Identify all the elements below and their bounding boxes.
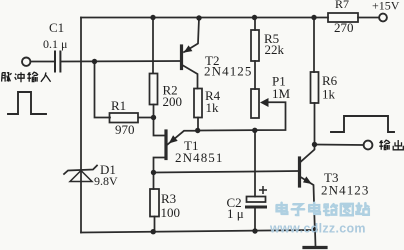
wire bottom rail bbox=[81, 230, 315, 233]
junction T1 emitter-R4 node bbox=[195, 128, 200, 133]
junction ground rail-T3 emitter bbox=[312, 227, 317, 232]
wire C1 to T2 base bbox=[61, 60, 181, 63]
svg-text:1M: 1M bbox=[272, 86, 291, 101]
svg-text:1k: 1k bbox=[206, 100, 220, 115]
zener diode D1 anode triangle bbox=[70, 171, 92, 182]
label output (Chinese glyph strokes) bbox=[379, 140, 403, 150]
transistor T2 collector bbox=[183, 66, 198, 89]
wire R3 top bbox=[153, 173, 155, 190]
potentiometer P1 wiper arrowhead bbox=[260, 98, 269, 107]
svg-text:100: 100 bbox=[161, 205, 181, 220]
svg-text:R1: R1 bbox=[111, 98, 126, 113]
junction R1-R2-T1 B2 node bbox=[151, 115, 156, 120]
transistor T3 emitter bbox=[301, 177, 315, 230]
transistor T1 emitter arrowhead bbox=[169, 135, 178, 143]
wire R7 to +15V terminal bbox=[358, 17, 379, 19]
wire R1 to node bbox=[139, 117, 154, 119]
capacitor C1 bbox=[55, 52, 60, 72]
junction T3 collector-R6-output node bbox=[312, 142, 317, 147]
input pulse waveform bbox=[8, 92, 46, 114]
wire R1 branch down bbox=[95, 62, 111, 118]
wire B1 node to T3 base bbox=[154, 171, 299, 173]
wire R2 top bbox=[152, 18, 154, 74]
junction P1-C2 node bbox=[252, 128, 257, 133]
wire left vertical (rail to bottom through D1) bbox=[80, 18, 82, 233]
resistor R4 bbox=[194, 89, 202, 118]
ground stem bbox=[314, 230, 317, 247]
svg-text:22k: 22k bbox=[265, 42, 285, 57]
junction T1 B1-R3 node bbox=[151, 170, 156, 175]
transistor T1 bar bbox=[164, 131, 167, 159]
svg-text:R3: R3 bbox=[161, 191, 176, 206]
label pulse input (Chinese glyph strokes) bbox=[2, 72, 51, 82]
svg-text:R7: R7 bbox=[335, 0, 349, 11]
svg-text:9.8V: 9.8V bbox=[94, 174, 118, 188]
capacitor C2 bottom plate bbox=[247, 206, 266, 209]
svg-text:200: 200 bbox=[163, 94, 183, 109]
resistor R7 bbox=[328, 13, 358, 22]
wire R6 top bbox=[313, 18, 315, 73]
wire P1 top to R5 bbox=[254, 61, 256, 89]
wire top rail bbox=[81, 17, 328, 19]
potentiometer P1 body bbox=[251, 89, 259, 118]
wire input to C1 bbox=[31, 61, 56, 63]
junction input-R1 bbox=[92, 59, 97, 64]
svg-text:1 μ: 1 μ bbox=[227, 206, 244, 221]
ground bar bbox=[304, 246, 326, 249]
svg-text:270: 270 bbox=[334, 20, 354, 35]
resistor R1 bbox=[110, 113, 139, 123]
junction rail-R5 bbox=[252, 15, 257, 20]
junction ground rail-R3 bbox=[151, 229, 156, 234]
terminal +15V circle bbox=[379, 14, 387, 22]
wire emitter node to P1 wiper bbox=[198, 102, 286, 130]
capacitor C2 plus sign bbox=[259, 186, 267, 194]
wire C2 bottom bbox=[254, 209, 256, 232]
resistor R3 bbox=[150, 189, 159, 217]
svg-text:2N4851: 2N4851 bbox=[175, 150, 224, 165]
junction ground rail-C2 bbox=[252, 228, 257, 233]
junction rail-T2 emitter bbox=[196, 15, 201, 20]
svg-text:+15V: +15V bbox=[372, 0, 400, 13]
zener diode D1 cathode bar bbox=[64, 166, 97, 175]
wire R4 bottom bbox=[197, 118, 199, 131]
wire R3 bottom bbox=[154, 217, 156, 232]
terminal output circle bbox=[364, 141, 373, 150]
capacitor C2 top plate bbox=[247, 197, 266, 203]
transistor T3 bar bbox=[298, 158, 301, 186]
svg-text:970: 970 bbox=[115, 122, 135, 137]
terminal input circle bbox=[22, 58, 30, 66]
watermark site name bbox=[277, 203, 369, 216]
resistor R2 bbox=[150, 74, 158, 105]
wire P1 bottom node to C2 bbox=[254, 131, 256, 197]
svg-text:C1: C1 bbox=[49, 20, 64, 35]
svg-text:1k: 1k bbox=[322, 87, 336, 102]
transistor T3 collector bbox=[301, 145, 315, 162]
svg-text:2N4123: 2N4123 bbox=[321, 183, 370, 198]
junction rail-R6 bbox=[311, 15, 316, 20]
wire R2 bottom bbox=[153, 105, 155, 118]
transistor T2 emitter wire bbox=[184, 18, 199, 52]
transistor T2 emitter arrowhead bbox=[184, 45, 193, 52]
transistor T3 emitter arrowhead bbox=[303, 176, 312, 184]
wire collector node to output terminal bbox=[315, 144, 364, 147]
svg-text:www.cdlzz.com: www.cdlzz.com bbox=[269, 222, 366, 236]
wire T1 B1 lead bbox=[154, 158, 166, 173]
wire R6 bottom bbox=[314, 103, 316, 144]
svg-text:2N4125: 2N4125 bbox=[204, 64, 253, 79]
transistor T2 bar bbox=[180, 46, 183, 69]
transistor T1 emitter bbox=[168, 131, 198, 145]
svg-text:0.1 μ: 0.1 μ bbox=[43, 37, 67, 51]
wire T1 B2 lead bbox=[154, 118, 166, 136]
resistor R5 bbox=[251, 30, 259, 61]
junction rail-R2 bbox=[150, 15, 155, 20]
output pulse waveform bbox=[331, 116, 394, 132]
wire R5 top bbox=[254, 18, 256, 31]
resistor R6 bbox=[311, 72, 319, 103]
